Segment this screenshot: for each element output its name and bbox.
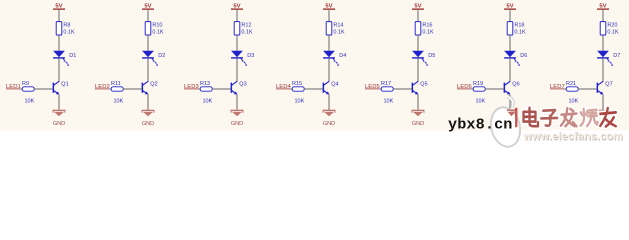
logo red separator bar <box>515 108 517 127</box>
svg-text:10K: 10K <box>25 99 35 105</box>
wire Q4 emitter to ground <box>328 94 330 110</box>
LED D3 <box>231 51 247 66</box>
svg-text:0.1K: 0.1K <box>152 30 164 36</box>
wire 5V to R18 <box>509 10 511 22</box>
schematic sheet background <box>0 0 629 131</box>
resistor R21 <box>566 81 578 91</box>
transistor Q3 (NPN) <box>231 81 238 94</box>
wire 5V to R12 <box>236 10 238 22</box>
svg-text:10K: 10K <box>295 99 305 105</box>
LED D6 <box>504 51 520 66</box>
svg-text:GND: GND <box>412 121 424 127</box>
svg-text:GND: GND <box>323 121 335 127</box>
resistor R20 <box>600 22 617 35</box>
resistor R15 <box>292 81 304 91</box>
resistor R18 <box>507 22 524 35</box>
ground GND (stage 4) <box>323 110 336 127</box>
resistor R14 <box>326 22 343 35</box>
wire Q6 emitter to ground <box>509 94 511 110</box>
power +5V (stage 2) <box>142 4 154 10</box>
wire Q5 emitter to ground <box>417 94 419 110</box>
net label LED7 <box>550 84 565 90</box>
wire R17 to Q5 base <box>393 88 411 90</box>
svg-text:R20: R20 <box>607 22 617 28</box>
ground GND (stage 7) <box>597 110 610 127</box>
svg-text:D7: D7 <box>613 53 620 59</box>
wire LED7 to R21 <box>564 88 566 90</box>
power +5V (stage 6) <box>504 4 516 10</box>
wire LED5 to R17 <box>379 88 381 90</box>
svg-text:10K: 10K <box>114 99 124 105</box>
transistor Q1 (NPN) <box>53 81 60 94</box>
svg-text:www.elecfans.com: www.elecfans.com <box>523 131 623 143</box>
wire R12 to D3 <box>236 35 238 51</box>
svg-text:Q1: Q1 <box>61 81 68 87</box>
svg-text:Q7: Q7 <box>605 81 612 87</box>
wire LED6 to R19 <box>471 88 473 90</box>
wire R10 to D2 <box>147 35 149 51</box>
wire LED3 to R13 <box>198 88 200 90</box>
power +5V (stage 1) <box>53 4 65 10</box>
LED D2 <box>142 51 158 66</box>
power +5V (stage 4) <box>323 4 335 10</box>
svg-text:0.1K: 0.1K <box>241 30 253 36</box>
net label LED4 <box>276 84 291 90</box>
svg-text:D6: D6 <box>520 53 527 59</box>
svg-text:10K: 10K <box>476 99 486 105</box>
ground GND (stage 6) <box>504 110 517 127</box>
svg-text:Q3: Q3 <box>239 81 246 87</box>
wire LED1 to R9 <box>20 88 22 90</box>
wire D2 to Q2 collector <box>147 59 149 82</box>
wire R15 to Q4 base <box>304 88 322 90</box>
svg-text:D2: D2 <box>158 53 165 59</box>
svg-text:R21: R21 <box>566 81 576 87</box>
svg-text:R12: R12 <box>241 22 251 28</box>
wire R9 to Q1 base <box>34 88 52 90</box>
transistor Q6 (NPN) <box>504 81 511 94</box>
resistor R12 <box>234 22 251 35</box>
ground GND (stage 2) <box>142 110 155 127</box>
svg-text:10K: 10K <box>203 99 213 105</box>
resistor R16 <box>415 22 432 35</box>
wire 5V to R8 <box>58 10 60 22</box>
transistor Q7 (NPN) <box>597 81 604 94</box>
svg-text:10K: 10K <box>384 99 394 105</box>
net label LED6 <box>457 84 472 90</box>
net label LED5 <box>365 84 380 90</box>
wire D5 to Q5 collector <box>417 59 419 82</box>
svg-text:R14: R14 <box>333 22 343 28</box>
wire D6 to Q6 collector <box>509 59 511 82</box>
resistor R17 <box>381 81 393 91</box>
svg-text:D3: D3 <box>247 53 254 59</box>
ground GND (stage 3) <box>231 110 244 127</box>
resistor R10 <box>145 22 162 35</box>
svg-text:GND: GND <box>231 121 243 127</box>
wire D1 to Q1 collector <box>58 59 60 82</box>
wire R21 to Q7 base <box>578 88 596 90</box>
wire Q2 emitter to ground <box>147 94 149 110</box>
watermark mouse icon <box>487 97 524 150</box>
svg-text:10K: 10K <box>569 99 579 105</box>
ground GND (stage 5) <box>412 110 425 127</box>
transistor Q2 (NPN) <box>142 81 149 94</box>
wire 5V to R14 <box>328 10 330 22</box>
wire 5V to R16 <box>417 10 419 22</box>
svg-text:0.1K: 0.1K <box>422 30 434 36</box>
wire R19 to Q6 base <box>485 88 503 90</box>
svg-text:R9: R9 <box>22 81 29 87</box>
svg-text:GND: GND <box>53 121 65 127</box>
wire Q1 emitter to ground <box>58 94 60 110</box>
svg-text:R10: R10 <box>152 22 162 28</box>
svg-text:D4: D4 <box>339 53 346 59</box>
wire LED2 to R11 <box>109 88 111 90</box>
svg-text:R16: R16 <box>422 22 432 28</box>
LED D7 <box>597 51 613 66</box>
resistor R13 <box>200 81 212 91</box>
svg-text:D1: D1 <box>69 53 76 59</box>
wire 5V to R20 <box>602 10 604 22</box>
svg-text:R13: R13 <box>200 81 210 87</box>
wire D7 to Q7 collector <box>602 59 604 82</box>
LED D4 <box>323 51 339 66</box>
wire D4 to Q4 collector <box>328 59 330 82</box>
wire R16 to D5 <box>417 35 419 51</box>
power +5V (stage 5) <box>412 4 424 10</box>
svg-text:R19: R19 <box>473 81 483 87</box>
wire R14 to D4 <box>328 35 330 51</box>
wire R18 to D6 <box>509 35 511 51</box>
LED D5 <box>412 51 428 66</box>
LED D1 <box>53 51 69 66</box>
transistor Q4 (NPN) <box>323 81 330 94</box>
power +5V (stage 7) <box>597 4 609 10</box>
wire R20 to D7 <box>602 35 604 51</box>
svg-text:R8: R8 <box>63 22 70 28</box>
svg-text:Q6: Q6 <box>512 81 519 87</box>
net label LED2 <box>95 84 110 90</box>
svg-text:0.1K: 0.1K <box>333 30 345 36</box>
wire 5V to R10 <box>147 10 149 22</box>
logo url www.elecfans.com <box>523 131 624 144</box>
svg-text:0.1K: 0.1K <box>63 30 75 36</box>
resistor R19 <box>473 81 485 91</box>
svg-text:R17: R17 <box>381 81 391 87</box>
resistor R9 <box>22 81 34 91</box>
logo text 电子发烧友 (stylized) <box>524 108 616 127</box>
transistor Q5 (NPN) <box>412 81 419 94</box>
ground GND (stage 6, visible over watermark) <box>507 109 517 116</box>
wire R8 to D1 <box>58 35 60 51</box>
svg-text:Q4: Q4 <box>331 81 338 87</box>
svg-text:ybx8.cn: ybx8.cn <box>448 116 513 134</box>
svg-text:R11: R11 <box>111 81 121 87</box>
wire R13 to Q3 base <box>212 88 230 90</box>
wire Q7 emitter to ground <box>602 94 604 110</box>
svg-text:0.1K: 0.1K <box>514 30 526 36</box>
svg-text:Q2: Q2 <box>150 81 157 87</box>
power +5V (stage 3) <box>231 4 243 10</box>
svg-text:0.1K: 0.1K <box>607 30 619 36</box>
wire D3 to Q3 collector <box>236 59 238 82</box>
svg-text:D5: D5 <box>428 53 435 59</box>
wire Q3 emitter to ground <box>236 94 238 110</box>
svg-text:Q5: Q5 <box>420 81 427 87</box>
wire R11 to Q2 base <box>123 88 141 90</box>
svg-text:R18: R18 <box>514 22 524 28</box>
ground GND (stage 1) <box>53 110 66 127</box>
resistor R8 <box>56 22 70 35</box>
svg-text:R15: R15 <box>292 81 302 87</box>
svg-text:GND: GND <box>142 121 154 127</box>
resistor R11 <box>111 81 123 91</box>
wire LED4 to R15 <box>290 88 292 90</box>
net label LED3 <box>184 84 199 90</box>
net label LED1 <box>6 84 21 90</box>
